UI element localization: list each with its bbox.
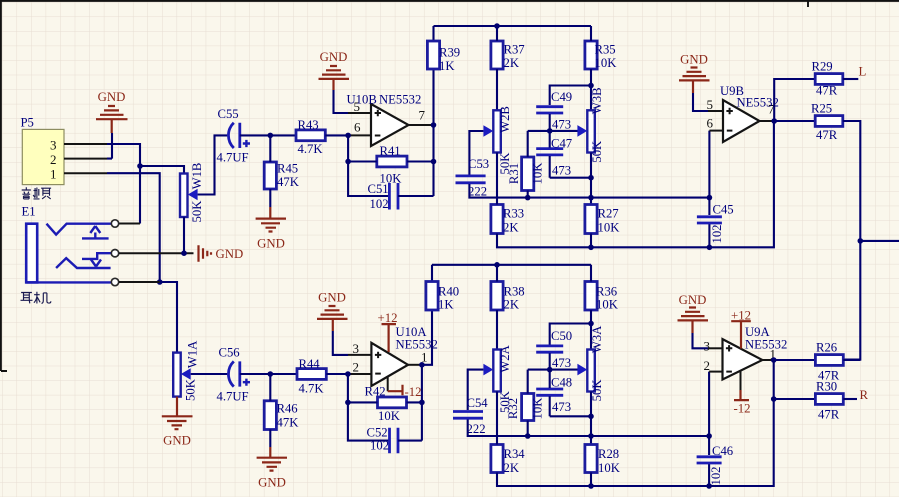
pin wire U10A pin2 bbox=[348, 373, 372, 375]
svg-text:50K: 50K bbox=[190, 200, 204, 223]
junction W3A lead on mid bus bbox=[588, 433, 594, 439]
op-amp U10B pin7 number bbox=[419, 108, 426, 123]
svg-text:R31: R31 bbox=[507, 163, 521, 184]
resistor R28 body bbox=[585, 445, 597, 473]
svg-text:50K: 50K bbox=[590, 379, 604, 402]
power -12 pin stub (U9A) bbox=[740, 371, 742, 391]
ground GND8 symbol bbox=[678, 308, 709, 334]
svg-text:NE5532: NE5532 bbox=[379, 93, 421, 107]
op-amp U10A plus mark bbox=[375, 352, 381, 358]
potentiometer W2B body bbox=[493, 110, 501, 152]
op-amp U9A designator bbox=[745, 325, 771, 339]
resistor R46 designator bbox=[277, 402, 298, 416]
svg-text:R37: R37 bbox=[504, 43, 525, 57]
junction U9B output node bbox=[771, 118, 777, 124]
svg-text:R26: R26 bbox=[816, 341, 837, 355]
svg-text:GND: GND bbox=[258, 476, 286, 490]
potentiometer W2B value bbox=[498, 152, 512, 175]
wire R29 to L bbox=[843, 78, 859, 80]
E1 tip switch arrow bbox=[82, 226, 109, 238]
ground GND2 symbol bbox=[319, 66, 350, 90]
potentiometer W1A designator bbox=[186, 340, 200, 368]
wire pin6 feedback vertical bbox=[348, 135, 389, 196]
junction C49 top on R35 lead bbox=[588, 83, 594, 89]
resistor R30 body bbox=[815, 394, 843, 405]
potentiometer W3B wiper arrow bbox=[577, 125, 587, 137]
svg-text:473: 473 bbox=[552, 356, 571, 370]
wire C56 to R44 bbox=[240, 373, 297, 375]
wire C50/C48 node to W3A wiper bbox=[528, 369, 578, 371]
capacitor C48 symbol bbox=[536, 389, 563, 395]
wire R44 to U10A pin2 bbox=[326, 373, 348, 375]
svg-text:W1A: W1A bbox=[186, 340, 200, 368]
junction E1 sleeve / pin1 node bbox=[157, 279, 163, 285]
potentiometer W1B wiper arrow bbox=[188, 189, 198, 201]
resistor R35 value bbox=[595, 56, 618, 70]
wire R36 leads to W3A bbox=[590, 265, 592, 350]
connector P5 body bbox=[22, 129, 64, 184]
potentiometer W3B value bbox=[590, 140, 604, 163]
resistor R32 designator bbox=[506, 398, 520, 419]
svg-text:R39: R39 bbox=[439, 46, 460, 60]
svg-text:102: 102 bbox=[370, 197, 389, 211]
junction P5 pin3 node bbox=[137, 163, 143, 169]
resistor R34 designator bbox=[504, 447, 526, 461]
op-amp U9B plus mark bbox=[726, 108, 732, 114]
op-amp U9A triangle bbox=[723, 339, 763, 379]
svg-text:6: 6 bbox=[354, 120, 361, 135]
capacitor C50 designator bbox=[551, 329, 572, 343]
svg-text:2K: 2K bbox=[504, 461, 520, 475]
svg-text:1K: 1K bbox=[439, 59, 455, 73]
op-amp U10A pin1 number bbox=[421, 350, 428, 365]
wire sleeve node to W1A bbox=[160, 282, 177, 353]
junction U10B pin6 bbox=[345, 133, 351, 139]
junction W1B bottom on ring wire bbox=[181, 250, 187, 256]
resistor R29 designator bbox=[812, 60, 833, 74]
potentiometer W3B body bbox=[587, 110, 595, 152]
svg-text:6: 6 bbox=[707, 116, 714, 131]
resistor R25 value bbox=[816, 128, 838, 142]
svg-text:R25: R25 bbox=[811, 102, 832, 116]
wire P5 pin1 net bbox=[107, 173, 160, 282]
op-amp U9A part number NE5532 bbox=[745, 337, 787, 351]
junction C48 bottom at W3A lead bbox=[588, 414, 594, 420]
ground stem below W1A bbox=[176, 397, 178, 417]
svg-text:10K: 10K bbox=[598, 221, 621, 235]
svg-text:47R: 47R bbox=[816, 84, 838, 98]
resistor R27 designator bbox=[598, 207, 619, 221]
wire R41 leads bbox=[348, 160, 433, 162]
resistor R33 value bbox=[503, 221, 519, 235]
resistor R41 designator bbox=[380, 144, 401, 158]
wire W1B bottom to ring node bbox=[183, 217, 185, 253]
wire output node to R26 bbox=[774, 359, 816, 361]
potentiometer W2A designator bbox=[498, 344, 512, 372]
wire W2A wiper to C54 bbox=[468, 370, 484, 410]
potentiometer W2A value bbox=[498, 390, 512, 413]
junction R27 bottom bbox=[588, 245, 594, 251]
power +12 symbol (U10A) bbox=[382, 324, 397, 352]
junction C46 top bbox=[706, 433, 712, 439]
svg-text:102: 102 bbox=[710, 224, 724, 243]
capacitor C51 designator bbox=[368, 182, 389, 196]
junction R45 top bbox=[268, 133, 274, 139]
wire output to R39 and feedback bbox=[432, 26, 434, 196]
svg-text:R32: R32 bbox=[506, 398, 520, 419]
svg-text:R45: R45 bbox=[277, 162, 298, 176]
junction U9A output node bbox=[771, 357, 777, 363]
resistor R37 value bbox=[504, 56, 520, 70]
potentiometer W3A wiper arrow bbox=[577, 364, 587, 376]
wire bottom bus left channel bbox=[497, 121, 774, 247]
resistor R28 designator bbox=[598, 447, 619, 461]
svg-text:R27: R27 bbox=[598, 207, 619, 221]
ground GND4 sideways symbol (E1 ring) bbox=[199, 245, 212, 262]
svg-text:GND: GND bbox=[98, 90, 126, 104]
capacitor C52 designator bbox=[367, 426, 388, 440]
ground GND3 label (above U9B) bbox=[680, 53, 708, 67]
svg-text:1K: 1K bbox=[438, 298, 454, 312]
connector P5 designator bbox=[21, 116, 34, 130]
capacitor C56 plus mark bbox=[243, 379, 250, 386]
wire output to R40 bbox=[422, 265, 432, 365]
op-amp U9A pin3 number bbox=[704, 338, 711, 353]
svg-text:W3B: W3B bbox=[590, 87, 604, 114]
potentiometer W3A designator bbox=[590, 325, 604, 353]
ground GND2 label (above U10B) bbox=[320, 50, 348, 64]
wire C46 vertical bbox=[708, 436, 710, 486]
wire W1B wiper to C55 bbox=[198, 135, 228, 194]
wire P5 pin2 to GND1 bbox=[107, 133, 112, 159]
op-amp U9B pin7 number bbox=[768, 102, 775, 117]
svg-text:W2B: W2B bbox=[498, 106, 512, 133]
junction R28 bottom bbox=[588, 483, 594, 489]
op-amp U10A part number NE5532 bbox=[396, 337, 438, 351]
svg-text:GND: GND bbox=[679, 293, 707, 307]
svg-text:C45: C45 bbox=[713, 203, 734, 217]
wire E1 sleeve contact bbox=[119, 281, 160, 283]
wire E1 tip contact to pin3 net bbox=[119, 223, 140, 225]
capacitor C47 symbol bbox=[536, 149, 563, 155]
capacitor C51 value bbox=[370, 197, 389, 211]
wire C47 stubs bbox=[549, 131, 551, 178]
junction R41 right bbox=[431, 159, 437, 165]
resistor R44 designator bbox=[299, 357, 321, 371]
wire C48 stubs bbox=[549, 370, 551, 417]
junction C46 bottom bbox=[706, 483, 712, 489]
E1 sleeve terminal circle bbox=[111, 278, 118, 285]
wire R32 leads bbox=[527, 370, 529, 436]
svg-text:47R: 47R bbox=[816, 128, 838, 142]
op-amp U10A pin2 number bbox=[353, 359, 360, 374]
resistor R42 value bbox=[378, 409, 401, 423]
potentiometer W3B designator bbox=[590, 87, 604, 114]
svg-text:4.7UF: 4.7UF bbox=[217, 390, 249, 404]
wire C54 bottom to mid bus bbox=[468, 420, 709, 437]
E1 tip terminal circle bbox=[111, 220, 118, 227]
op-amp U9B designator bbox=[720, 84, 744, 98]
op-amp U10B pin6 number bbox=[354, 120, 361, 135]
svg-text:222: 222 bbox=[468, 185, 487, 199]
resistor R30 designator bbox=[816, 380, 837, 394]
op-amp U9B pin5 number bbox=[707, 97, 714, 112]
wire R46 leads bbox=[269, 374, 271, 447]
wire W3A bottom to R28 bbox=[590, 392, 592, 445]
pin wire U9B pin6 bbox=[709, 130, 723, 132]
resistor R31 value bbox=[531, 162, 545, 185]
capacitor C47 value bbox=[552, 164, 571, 178]
resistor R42 body bbox=[378, 397, 407, 408]
P5 pin 3 stub bbox=[64, 143, 107, 145]
wire stub to sheet edge bbox=[860, 240, 899, 242]
svg-text:C53: C53 bbox=[468, 157, 489, 171]
potentiometer W3A body bbox=[587, 350, 595, 392]
wire R25 to right vertical bbox=[843, 121, 861, 360]
svg-text:C51: C51 bbox=[368, 182, 389, 196]
svg-text:473: 473 bbox=[552, 400, 571, 414]
wire pin2 feedback vertical bbox=[348, 374, 389, 441]
resistor R40 body bbox=[426, 282, 438, 311]
wire R38 leads bbox=[496, 265, 498, 350]
wire W2B bottom to R33 bbox=[496, 153, 498, 205]
net label R bbox=[860, 388, 869, 402]
power -12 pin stub (U10A) bbox=[387, 377, 389, 392]
junction R42 right bbox=[419, 400, 425, 406]
junction C50 top on R36 lead bbox=[588, 321, 594, 327]
P5 comment 音频 bbox=[22, 187, 51, 199]
wire R45 leads bbox=[269, 135, 271, 207]
capacitor C56 value bbox=[217, 390, 249, 404]
resistor R36 value bbox=[596, 298, 619, 312]
wire C49 bottom stub bbox=[549, 114, 551, 131]
capacitor C46 designator bbox=[712, 444, 733, 458]
junction R30 tap bbox=[771, 396, 777, 402]
svg-text:R41: R41 bbox=[380, 144, 401, 158]
P5 pin 2 number bbox=[50, 152, 57, 167]
svg-text:4.7UF: 4.7UF bbox=[217, 151, 249, 165]
op-amp U10B designator bbox=[347, 93, 377, 107]
resistor R39 value bbox=[439, 59, 455, 73]
resistor R40 designator bbox=[438, 284, 459, 298]
potentiometer W3A value bbox=[590, 379, 604, 402]
pin wire U9A pin3 bbox=[708, 347, 723, 349]
junction R32 bottom on mid bus bbox=[525, 433, 531, 439]
power +12 label (U10A) bbox=[377, 311, 397, 325]
E1 ring terminal circle bbox=[111, 250, 118, 257]
op-amp U9A plus mark bbox=[726, 345, 732, 351]
capacitor C55 plus mark bbox=[243, 140, 250, 147]
svg-text:R38: R38 bbox=[504, 284, 525, 298]
ground GND1 symbol (above P5 pin2) bbox=[96, 106, 128, 133]
capacitor C53 designator bbox=[468, 157, 489, 171]
capacitor C51 symbol bbox=[389, 183, 398, 210]
svg-text:C50: C50 bbox=[551, 329, 572, 343]
E1 comment 耳机 bbox=[21, 292, 51, 304]
potentiometer W2A body bbox=[493, 350, 501, 392]
E1 sleeve contact line bbox=[26, 281, 111, 283]
op-amp U9A minus mark bbox=[726, 371, 732, 373]
ground GND1 label bbox=[98, 90, 126, 104]
op-amp U9B minus mark bbox=[727, 130, 733, 132]
junction U10A pin2 bbox=[345, 371, 351, 377]
capacitor C48 value bbox=[552, 400, 571, 414]
op-amp U9B part number NE5532 bbox=[737, 96, 779, 110]
svg-text:GND: GND bbox=[318, 291, 346, 305]
potentiometer W1A body bbox=[173, 353, 181, 397]
svg-text:50K: 50K bbox=[184, 378, 198, 401]
junction top bus R38 bbox=[494, 262, 500, 268]
svg-text:U10B: U10B bbox=[347, 93, 377, 107]
headphone jack E1 body bbox=[26, 224, 37, 283]
wire C45 vertical bbox=[708, 198, 710, 248]
resistor R36 body bbox=[585, 282, 597, 311]
op-amp U10A minus mark bbox=[375, 373, 381, 375]
svg-text:3: 3 bbox=[704, 338, 711, 353]
svg-text:R33: R33 bbox=[503, 207, 524, 221]
svg-text:GND: GND bbox=[257, 237, 285, 251]
svg-text:R30: R30 bbox=[816, 380, 837, 394]
svg-text:+12: +12 bbox=[731, 309, 751, 323]
op-amp U10B minus mark bbox=[375, 135, 381, 137]
potentiometer W1B body bbox=[180, 174, 188, 218]
power -12 label (U10A) bbox=[405, 385, 422, 399]
wire P5 pin3 net bbox=[107, 144, 184, 224]
ground label below W1A bbox=[163, 434, 191, 448]
svg-text:2K: 2K bbox=[504, 56, 520, 70]
pin wire U10A pin3 bbox=[348, 354, 371, 356]
svg-text:NE5532: NE5532 bbox=[737, 96, 779, 110]
resistor R26 value bbox=[818, 369, 840, 383]
P5 pin 2 stub bbox=[64, 158, 107, 160]
capacitor C45 symbol bbox=[697, 217, 722, 223]
capacitor C52 symbol bbox=[390, 428, 399, 453]
potentiometer W2B designator bbox=[498, 106, 512, 133]
capacitor C56 designator bbox=[219, 346, 240, 360]
svg-text:C48: C48 bbox=[551, 376, 572, 390]
ground GND6 label bbox=[258, 476, 286, 490]
svg-text:+12: +12 bbox=[377, 311, 397, 325]
resistor R38 value bbox=[504, 298, 520, 312]
svg-text:W3A: W3A bbox=[590, 325, 604, 353]
junction U10B output node bbox=[431, 122, 437, 128]
capacitor C49 symbol bbox=[536, 107, 563, 113]
svg-text:5: 5 bbox=[707, 97, 714, 112]
wire R30 to R bbox=[843, 398, 857, 400]
pin wire U9B pin5 bbox=[708, 110, 723, 112]
ground GND5 stem bbox=[269, 207, 271, 219]
op-amp U10B pin5 number bbox=[354, 99, 361, 114]
svg-text:10K: 10K bbox=[531, 397, 545, 420]
svg-text:3: 3 bbox=[50, 138, 57, 153]
headphone jack E1 designator bbox=[22, 205, 36, 219]
wire U9B output bbox=[760, 120, 775, 122]
svg-text:C56: C56 bbox=[219, 346, 240, 360]
power -12 label (U9A) bbox=[733, 402, 750, 416]
capacitor C55 symbol bbox=[228, 123, 239, 148]
wire GND2 to U10B pin5 bbox=[334, 90, 349, 113]
power -12 symbol (U9A) bbox=[734, 390, 749, 400]
wire GND7 to U10A pin3 bbox=[333, 331, 348, 355]
resistor R45 body bbox=[264, 162, 276, 189]
wire C50 bottom stub bbox=[549, 353, 551, 369]
op-amp U10A designator bbox=[396, 325, 428, 339]
wire U9B pin6 vertical bbox=[708, 131, 710, 198]
svg-text:C52: C52 bbox=[367, 426, 388, 440]
P5 pin 1 stub bbox=[64, 172, 107, 174]
P5 pin 1 number bbox=[50, 166, 57, 181]
wire R37 leads bbox=[496, 26, 498, 110]
wire output node up to R29 bbox=[774, 79, 815, 121]
wire bottom bus right channel bbox=[497, 360, 774, 486]
resistor R37 designator bbox=[504, 43, 525, 57]
resistor R25 body bbox=[815, 116, 843, 127]
capacitor C49 designator bbox=[551, 90, 572, 104]
capacitor C45 value bbox=[710, 224, 724, 243]
svg-text:3: 3 bbox=[353, 341, 360, 356]
capacitor C46 value bbox=[709, 466, 723, 485]
svg-text:4.7K: 4.7K bbox=[299, 382, 325, 396]
junction C45 top bbox=[707, 195, 713, 201]
resistor R46 body bbox=[264, 401, 276, 430]
svg-text:R28: R28 bbox=[598, 447, 619, 461]
svg-text:C46: C46 bbox=[712, 444, 733, 458]
resistor R35 body bbox=[585, 41, 597, 69]
op-amp U10B part number NE5532 bbox=[379, 93, 421, 107]
potentiometer W1A value bbox=[184, 378, 198, 401]
resistor R26 body bbox=[815, 355, 843, 366]
wire top bus left channel bbox=[434, 25, 592, 27]
wire U10A output bbox=[408, 364, 422, 366]
resistor R26 designator bbox=[816, 341, 837, 355]
svg-text:GND: GND bbox=[163, 434, 191, 448]
svg-text:R34: R34 bbox=[504, 447, 526, 461]
svg-text:50K: 50K bbox=[590, 140, 604, 163]
resistor R30 value bbox=[818, 407, 840, 421]
wire W3B bottom to R27 bbox=[590, 153, 592, 205]
resistor R34 value bbox=[504, 461, 520, 475]
svg-text:1: 1 bbox=[50, 166, 57, 181]
E1 ring switch arrow bbox=[82, 253, 111, 266]
resistor R38 body bbox=[491, 282, 503, 311]
E1 tip contact line bbox=[47, 224, 112, 235]
svg-text:2K: 2K bbox=[504, 298, 520, 312]
resistor R29 value bbox=[816, 84, 838, 98]
svg-text:2K: 2K bbox=[503, 221, 519, 235]
wire C47 bottom to W3B lead bbox=[550, 177, 591, 179]
wire U10B output bbox=[409, 124, 434, 126]
pin wire U10B pin6 bbox=[348, 134, 371, 136]
op-amp U9A pin2 number bbox=[704, 358, 711, 373]
resistor R35 designator bbox=[595, 43, 616, 57]
svg-text:R44: R44 bbox=[299, 357, 321, 371]
svg-text:R42: R42 bbox=[365, 385, 386, 399]
resistor R32 value bbox=[531, 397, 545, 420]
svg-text:R29: R29 bbox=[812, 60, 833, 74]
capacitor C52 value bbox=[370, 439, 389, 453]
capacitor C53 value bbox=[468, 185, 487, 199]
op-amp U10B triangle bbox=[371, 104, 409, 146]
svg-text:10K: 10K bbox=[595, 56, 618, 70]
ground GND6 symbol (below R46) bbox=[257, 458, 287, 471]
wire R35 leads to W3B bbox=[590, 26, 592, 110]
resistor R39 body bbox=[427, 41, 439, 69]
ground symbol below W1A bbox=[162, 416, 193, 429]
op-amp U9B pin6 number bbox=[707, 116, 714, 131]
resistor R38 designator bbox=[504, 284, 525, 298]
svg-text:NE5532: NE5532 bbox=[745, 337, 787, 351]
svg-text:GND: GND bbox=[680, 53, 708, 67]
